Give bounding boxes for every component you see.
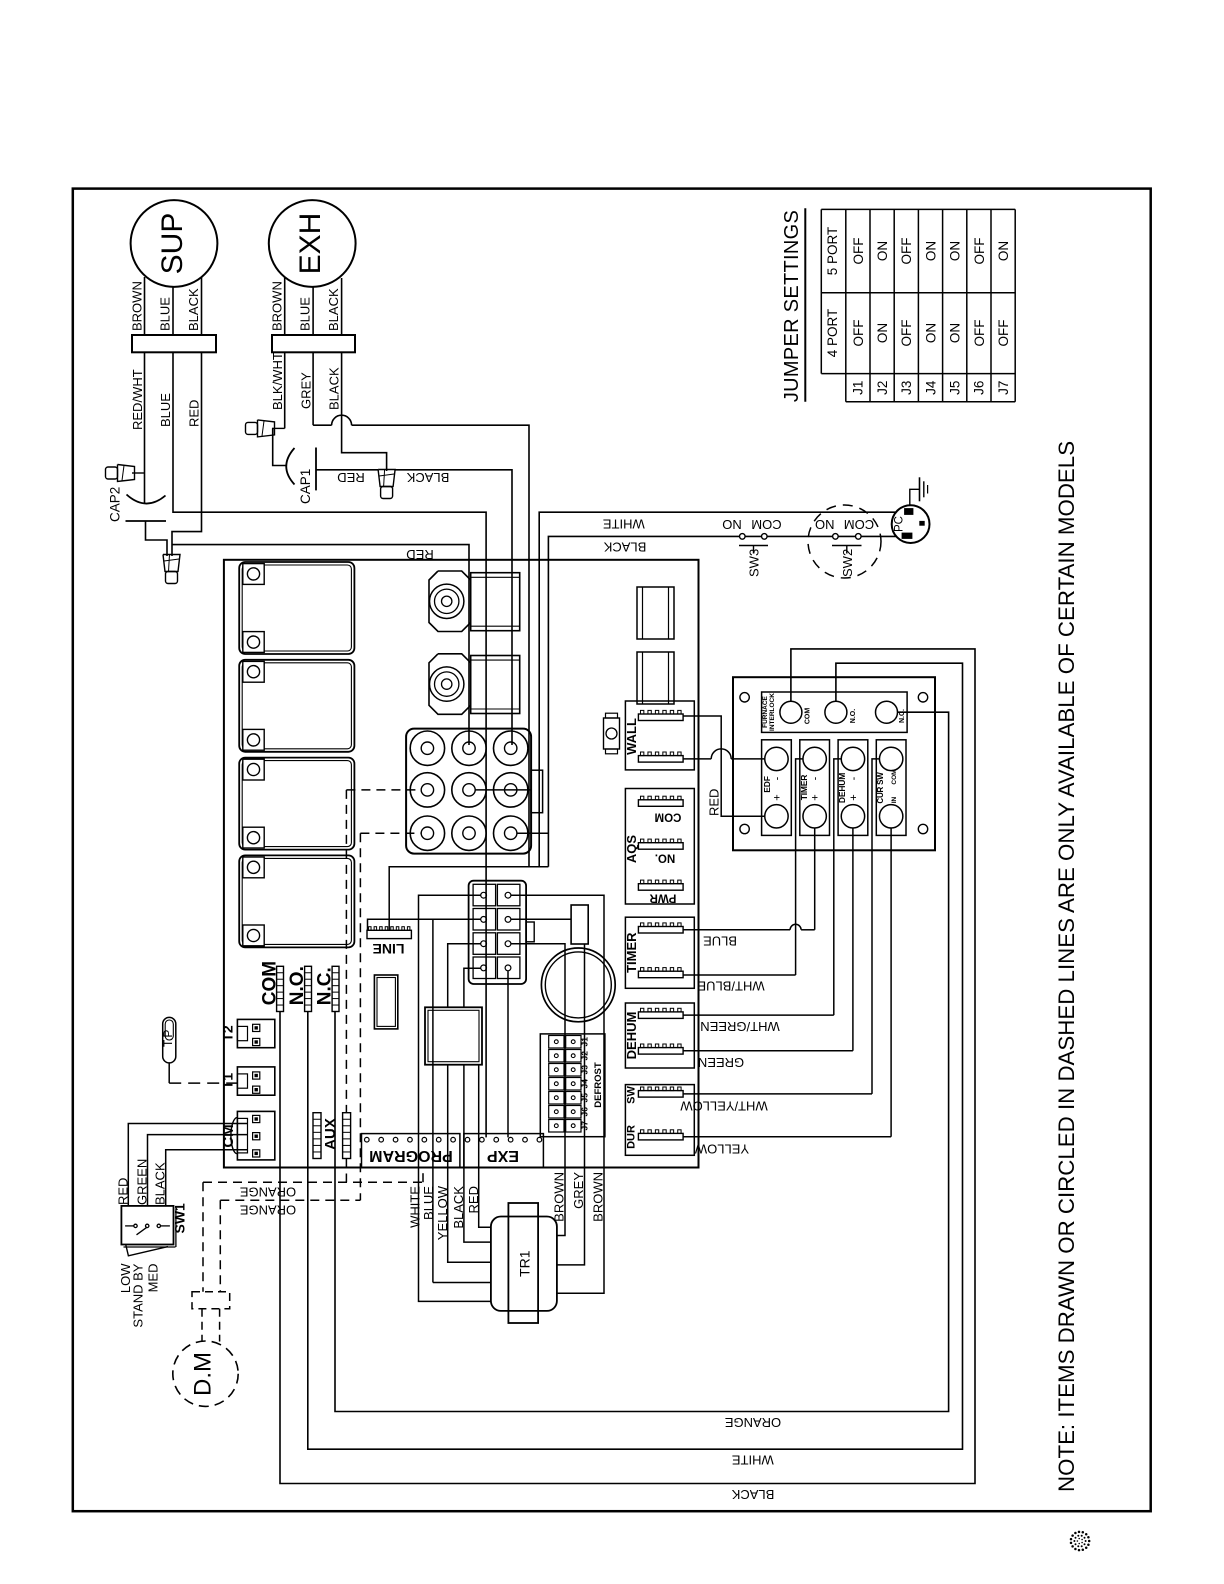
ground symbol <box>910 489 920 505</box>
wire BLACK to board grid <box>395 470 512 745</box>
svg-text:PWR: PWR <box>649 891 677 903</box>
svg-text:J3: J3 <box>899 381 914 395</box>
svg-text:J6: J6 <box>972 381 987 395</box>
switch SW1 <box>121 1206 173 1245</box>
wire RED to TR1 <box>479 1065 491 1228</box>
terminal COM <box>780 701 802 723</box>
grid terminal r1c1 <box>410 731 444 765</box>
svg-text:4 PORT: 4 PORT <box>825 309 840 358</box>
svg-text:+: + <box>848 794 860 800</box>
svg-text:BLUE: BLUE <box>421 1186 436 1220</box>
svg-text:RED: RED <box>337 470 364 485</box>
connector P1 8-pin <box>469 881 526 984</box>
page border frame <box>73 189 1151 1512</box>
connector SW/DUR <box>625 1085 694 1156</box>
connector bar SUP <box>132 335 216 352</box>
fuse F2 <box>637 652 674 704</box>
wire SUP BLACK <box>201 278 203 336</box>
wire SUP BLUE <box>172 287 174 335</box>
terminal N.O. <box>825 701 847 723</box>
svg-text:EDF: EDF <box>762 776 772 792</box>
svg-text:GREEN: GREEN <box>698 1055 744 1070</box>
wire SW1 GREEN to CM <box>148 1135 249 1206</box>
connector AUX <box>313 1113 321 1159</box>
relay K3 <box>239 758 354 850</box>
svg-text:J4: J4 <box>580 1079 590 1089</box>
fuse F1 <box>637 587 674 639</box>
svg-text:WALL: WALL <box>624 718 639 755</box>
dashed connector to D.M <box>192 1292 230 1309</box>
svg-text:ON: ON <box>875 323 890 343</box>
svg-text:N.O.: N.O. <box>850 709 857 723</box>
svg-text:OFF: OFF <box>972 320 987 347</box>
svg-text:J3: J3 <box>580 1065 590 1075</box>
svg-text:WHITE: WHITE <box>407 1186 422 1228</box>
svg-text:AUX: AUX <box>322 1118 339 1150</box>
header PROGRAM <box>362 1134 460 1168</box>
svg-text:BLUE: BLUE <box>298 297 313 331</box>
wire RED WALL to EDF+ <box>683 716 765 816</box>
svg-text:CM: CM <box>220 1124 237 1147</box>
svg-text:NO: NO <box>722 517 742 532</box>
connector bar EXH <box>272 335 355 352</box>
wire P1 row2 left <box>368 919 481 930</box>
svg-text:CUR SW: CUR SW <box>876 772 885 804</box>
grid terminal r2c2 <box>452 773 486 807</box>
dashed wire ORANGE 1 <box>203 1181 423 1183</box>
svg-text:ORANGE: ORANGE <box>240 1184 297 1199</box>
connector WALL <box>625 701 694 770</box>
svg-text:N.O.: N.O. <box>287 966 308 1005</box>
svg-text:EXP: EXP <box>487 1147 519 1164</box>
svg-text:OFF: OFF <box>851 320 866 347</box>
wire YELLOW to TR1 <box>448 1065 491 1263</box>
connector AUX dashed branch <box>343 1113 351 1159</box>
wire RED of SUP <box>172 352 202 556</box>
svg-text:EXH: EXH <box>294 213 327 275</box>
svg-text:ON: ON <box>923 323 938 343</box>
wire P1 row1 left <box>419 895 491 1301</box>
strip FURNACE INTERLOCK <box>762 692 908 732</box>
svg-text:T1: T1 <box>220 1073 236 1090</box>
strip CUR SW <box>876 740 906 836</box>
svg-text:NO: NO <box>815 517 835 532</box>
svg-text:COM: COM <box>260 961 281 1005</box>
grid terminal r1c2 <box>452 731 486 765</box>
svg-text:D.M: D.M <box>190 1352 217 1396</box>
motor EXH <box>269 200 356 287</box>
header N.C. <box>332 966 339 1011</box>
thermal probe T.P <box>163 1017 176 1063</box>
header N.O. <box>305 966 312 1011</box>
svg-text:ON: ON <box>875 241 890 261</box>
svg-text:OFF: OFF <box>972 238 987 265</box>
svg-text:BLUE: BLUE <box>158 297 173 331</box>
svg-text:J2: J2 <box>875 381 890 395</box>
svg-text:J1: J1 <box>851 381 866 395</box>
dashed wire to grid bottom-left <box>360 832 421 834</box>
svg-text:COM: COM <box>655 810 682 822</box>
wire P1 row3 right / BROWN <box>511 944 565 1236</box>
terminal grid block <box>406 729 531 854</box>
svg-text:WHT/YELLOW: WHT/YELLOW <box>680 1098 768 1113</box>
svg-text:MED: MED <box>146 1264 161 1293</box>
wire BLACK to switches <box>548 536 896 866</box>
relay box RY <box>425 1007 482 1064</box>
svg-text:J7: J7 <box>996 381 1011 395</box>
wire GREY to board <box>312 352 314 425</box>
svg-text:COM: COM <box>891 769 898 784</box>
svg-text:WHITE: WHITE <box>732 1452 774 1467</box>
wire WHT/GREEN DEHUM- <box>683 1014 834 1016</box>
grid terminal r1c3 <box>494 731 528 765</box>
svg-text:OFF: OFF <box>996 319 1011 346</box>
wire LINE to BLACK net <box>389 867 548 931</box>
wire P1 row1 right / BROWN <box>511 895 604 1293</box>
wire P1 row4 right <box>507 971 509 1137</box>
svg-text:J7: J7 <box>580 1121 590 1131</box>
wire EXH BLACK <box>341 278 343 335</box>
relay K2 <box>239 660 354 752</box>
svg-text:5 PORT: 5 PORT <box>825 227 840 276</box>
svg-text:OFF: OFF <box>899 238 914 265</box>
svg-text:ON: ON <box>948 323 963 343</box>
wire BLUE to board <box>173 352 486 1137</box>
svg-text:JUMPER SETTINGS: JUMPER SETTINGS <box>781 210 803 402</box>
strip DEHUM <box>838 740 868 836</box>
svg-text:OFF: OFF <box>851 238 866 265</box>
transformer TR1 <box>508 1203 538 1323</box>
svg-text:SW2: SW2 <box>840 549 855 577</box>
svg-text:PC: PC <box>894 516 906 532</box>
svg-text:BLUE: BLUE <box>703 933 737 948</box>
mount bracket <box>604 718 620 749</box>
wire SW1 BLACK to CM <box>166 1150 248 1206</box>
wire P1 row2 right <box>511 918 571 920</box>
dashed wire ORANGE 2 <box>220 1199 360 1201</box>
svg-text:RED: RED <box>115 1178 130 1205</box>
svg-text:DUR: DUR <box>625 1125 637 1149</box>
wire GREEN DEHUM+ <box>683 1050 853 1052</box>
wire from BLK/WHT nut to CAP1 <box>273 428 286 465</box>
svg-text:BROWN: BROWN <box>591 1172 606 1222</box>
terminal N.C. <box>876 701 898 723</box>
svg-text:LINE: LINE <box>373 941 405 957</box>
connector TIMER <box>625 917 694 988</box>
dashed riser to ORANGE <box>359 833 361 1200</box>
dashed riser to AUX <box>345 790 347 1113</box>
wire EXH BROWN <box>284 278 286 336</box>
switch SW2 <box>833 534 839 540</box>
connector AQS <box>625 789 694 905</box>
svg-text:BLUE: BLUE <box>158 393 173 427</box>
svg-text:J2: J2 <box>580 1051 590 1061</box>
svg-text:ON: ON <box>923 241 938 261</box>
wire RED/WHT <box>144 352 146 503</box>
svg-text:RED: RED <box>187 400 202 427</box>
svg-text:DEFROST: DEFROST <box>593 1062 604 1108</box>
wire CAP1 plate RED to splice <box>316 469 378 471</box>
wire COM to BLACK bottom run <box>280 649 975 1484</box>
svg-text:INTERLOCK: INTERLOCK <box>769 693 776 731</box>
svg-text:SW1: SW1 <box>172 1203 188 1234</box>
switch SW3 <box>740 534 746 540</box>
grid terminal r2c1 <box>410 773 444 807</box>
grid terminal r2c3 <box>494 773 528 807</box>
svg-text:DEHUM: DEHUM <box>624 1012 639 1060</box>
svg-text:GREEN: GREEN <box>135 1159 150 1205</box>
capacitor C1 <box>541 948 615 1022</box>
svg-text:PROGRAM: PROGRAM <box>369 1147 453 1164</box>
svg-text:BLACK: BLACK <box>326 288 341 331</box>
capacitor CAP2 straight plate <box>126 520 167 522</box>
svg-text:CAP2: CAP2 <box>108 487 123 522</box>
strip TIMER <box>800 740 830 836</box>
wire RED to board grid <box>172 545 469 745</box>
component block <box>374 975 397 1029</box>
PCB outline <box>224 560 699 1168</box>
wire grid bottom-right to BLACK <box>517 832 549 834</box>
svg-text:N.C.: N.C. <box>314 967 335 1005</box>
thermal breaker B2 <box>429 654 471 715</box>
svg-text:ORANGE: ORANGE <box>725 1415 782 1430</box>
svg-text:ORANGE: ORANGE <box>240 1202 297 1217</box>
grid terminal r3c1 <box>410 816 444 850</box>
wire grid middle row <box>475 789 531 791</box>
svg-text:BLACK: BLACK <box>451 1186 466 1229</box>
svg-text:TR1: TR1 <box>517 1250 533 1277</box>
svg-text:N.C.: N.C. <box>899 709 906 723</box>
grid terminal r3c2 <box>452 816 486 850</box>
svg-text:WHT/BLUE: WHT/BLUE <box>697 978 765 993</box>
svg-text:COM: COM <box>805 708 812 725</box>
wire WHITE to plug <box>539 512 897 867</box>
grid side tab <box>531 770 543 813</box>
wire BLACK to TR1 <box>464 1065 491 1242</box>
relay K1 <box>239 562 354 654</box>
svg-text:GREY: GREY <box>571 1172 586 1209</box>
svg-text:BLACK: BLACK <box>153 1162 168 1205</box>
dashed wire to grid middle-left <box>346 789 421 791</box>
svg-text:J4: J4 <box>923 380 938 395</box>
wire BLUE TIMER+ with hop <box>683 929 790 931</box>
header COM <box>277 966 284 1011</box>
wire T.P to T1 <box>168 1063 170 1083</box>
wire SW1 RED to CM <box>128 1124 248 1207</box>
svg-text:TIMER: TIMER <box>624 932 639 973</box>
svg-text:WHT/GREEN: WHT/GREEN <box>700 1019 779 1034</box>
svg-text:BLACK: BLACK <box>603 539 646 554</box>
switch SW2 dashed circle <box>808 505 881 578</box>
capacitor CAP1 straight plate <box>315 448 317 491</box>
svg-text:ON: ON <box>996 241 1011 261</box>
svg-text:NO.: NO. <box>655 851 675 863</box>
svg-text:-: - <box>771 776 783 780</box>
motor SUP <box>131 200 218 287</box>
svg-text:SW3: SW3 <box>747 549 762 577</box>
connector T1 <box>237 1067 274 1095</box>
strip EDF <box>762 740 792 836</box>
connector CM <box>237 1111 274 1160</box>
thermal breaker B1 <box>429 571 471 632</box>
svg-text:AQS: AQS <box>624 835 639 864</box>
wire P1 row3 left <box>448 944 481 1008</box>
svg-text:BLK/WHT: BLK/WHT <box>270 352 285 410</box>
svg-text:YELLOW: YELLOW <box>435 1185 450 1240</box>
wire SUP BROWN <box>144 277 146 335</box>
wire P1 row4 left <box>464 968 481 1007</box>
svg-text:OFF: OFF <box>899 320 914 347</box>
svg-text:COM: COM <box>844 517 874 532</box>
svg-text:J6: J6 <box>580 1107 590 1117</box>
wire BLK/WHT <box>284 352 286 428</box>
svg-text:YELLOW: YELLOW <box>694 1141 749 1156</box>
wire CAP2 plate to splice <box>146 521 168 556</box>
svg-text:BROWN: BROWN <box>130 281 145 331</box>
svg-text:IN: IN <box>891 796 898 803</box>
wire nut splice CAP2/RED <box>163 555 180 572</box>
svg-text:WHITE: WHITE <box>603 516 645 531</box>
svg-text:BLACK: BLACK <box>731 1487 774 1502</box>
wire EXH BLACK to splice <box>342 352 387 471</box>
svg-text:SW: SW <box>625 1086 637 1104</box>
wire N.O. to WHITE bottom run <box>308 663 963 1449</box>
connector LINE <box>367 930 411 938</box>
svg-text:COM: COM <box>751 517 781 532</box>
wire GREY to TR1 <box>557 944 585 1265</box>
svg-text:RED/WHT: RED/WHT <box>130 369 145 430</box>
svg-text:ON: ON <box>948 241 963 261</box>
svg-text:T.P: T.P <box>161 1030 175 1047</box>
wire YELLOW CUR SW IN <box>683 1136 891 1138</box>
stamp mark <box>1088 1540 1091 1543</box>
terminal board <box>733 677 935 850</box>
wire N.C. to ORANGE bottom run <box>335 712 949 1411</box>
svg-text:SUP: SUP <box>156 213 189 275</box>
capacitor CAP1 curved plate <box>286 448 294 485</box>
svg-text:FURNACE: FURNACE <box>762 695 769 727</box>
connector DEHUM <box>625 1003 694 1068</box>
svg-text:J5: J5 <box>580 1093 590 1103</box>
CM bulge <box>231 1117 238 1153</box>
wire WALL to EDF- with hop <box>683 758 711 760</box>
svg-text:BLACK: BLACK <box>406 470 449 485</box>
svg-text:T2: T2 <box>220 1025 236 1042</box>
svg-text:STAND BY: STAND BY <box>130 1263 145 1327</box>
capacitor terminal block <box>571 905 588 944</box>
svg-text:J1: J1 <box>580 1037 590 1047</box>
grid terminal r3c3 <box>494 816 528 850</box>
capacitor CAP2 curved plate <box>127 495 166 504</box>
svg-text:CAP1: CAP1 <box>298 469 313 504</box>
svg-text:+: + <box>810 794 822 800</box>
relay K4 <box>239 855 354 947</box>
wire nut splice CAP1/BLACK <box>378 470 395 487</box>
svg-text:BLACK: BLACK <box>327 367 342 410</box>
connector P1 tab <box>526 922 534 942</box>
svg-text:BLACK: BLACK <box>186 288 201 331</box>
svg-text:RED: RED <box>466 1186 481 1213</box>
power cord plug PC <box>892 505 930 543</box>
svg-text:RED: RED <box>707 789 722 816</box>
header EXP <box>464 1134 544 1168</box>
DIP switch DEFROST <box>540 1034 605 1137</box>
wire nut on BLK/WHT <box>246 422 258 434</box>
wire WHT/YELLOW CUR SW COM <box>683 1093 872 1095</box>
wire EXH BLUE <box>312 287 314 335</box>
svg-text:NOTE: ITEMS DRAWN OR CIRCLED I: NOTE: ITEMS DRAWN OR CIRCLED IN DASHED L… <box>1054 441 1079 1492</box>
wire nut on RED/WHT <box>106 467 118 479</box>
svg-text:TIMER: TIMER <box>799 775 809 801</box>
svg-text:-: - <box>848 776 860 780</box>
svg-text:-: - <box>810 776 822 780</box>
svg-text:BROWN: BROWN <box>552 1172 567 1222</box>
svg-text:J5: J5 <box>948 381 963 395</box>
header pins <box>365 1137 370 1142</box>
motor D.M dashed <box>173 1341 238 1406</box>
connector T2 <box>237 1019 274 1047</box>
svg-text:DEHUM: DEHUM <box>837 773 847 803</box>
svg-text:BROWN: BROWN <box>270 281 285 331</box>
svg-text:GREY: GREY <box>299 372 314 409</box>
wire WHT/BLUE TIMER- <box>683 974 796 976</box>
SW1 flap <box>126 1245 168 1256</box>
svg-text:+: + <box>771 794 783 800</box>
